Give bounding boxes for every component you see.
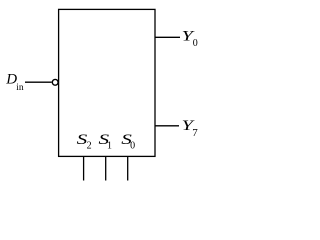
wire select S2	[83, 156, 85, 180]
wire select S1	[105, 156, 107, 180]
svg-text:0: 0	[193, 38, 198, 49]
svg-text:0: 0	[130, 141, 135, 152]
svg-text:1: 1	[107, 141, 112, 152]
svg-text:in: in	[16, 83, 24, 93]
svg-text:7: 7	[192, 127, 198, 139]
wire D_in input	[25, 81, 52, 83]
wire output Y7	[155, 125, 179, 127]
inverting bubble on D_in	[52, 79, 58, 85]
svg-text:2: 2	[87, 141, 92, 152]
demultiplexer body U1	[59, 9, 155, 156]
wire select S0	[127, 156, 129, 180]
wire output Y0	[155, 36, 180, 38]
